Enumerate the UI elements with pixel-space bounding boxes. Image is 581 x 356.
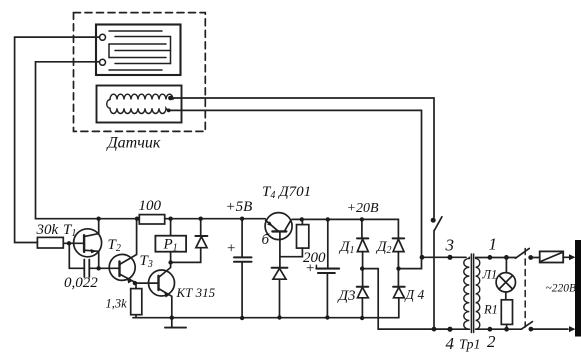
- svg-text:2: 2: [487, 332, 496, 351]
- svg-text:1,3k: 1,3k: [106, 297, 128, 311]
- svg-text:Д1: Д1: [338, 239, 355, 256]
- svg-text:100: 100: [139, 198, 162, 214]
- svg-text:~220В: ~220В: [546, 283, 577, 295]
- svg-text:Д 4: Д 4: [404, 287, 425, 302]
- svg-text:Т4 Д701: Т4 Д701: [262, 184, 311, 201]
- svg-text:Д2: Д2: [375, 239, 392, 256]
- svg-text:30k: 30k: [36, 222, 59, 238]
- svg-text:КТ 315: КТ 315: [176, 285, 216, 300]
- svg-text:Тр1: Тр1: [459, 338, 480, 353]
- svg-text:+5В: +5В: [226, 199, 253, 215]
- svg-text:+: +: [226, 241, 236, 257]
- svg-text:Р1: Р1: [163, 237, 178, 254]
- svg-text:3: 3: [445, 236, 455, 255]
- svg-text:R1: R1: [483, 303, 498, 317]
- svg-text:1: 1: [489, 235, 498, 254]
- svg-text:б: б: [262, 232, 270, 248]
- svg-text:Т1: Т1: [63, 222, 76, 239]
- svg-text:Д3: Д3: [337, 288, 356, 304]
- svg-text:Т2: Т2: [108, 237, 121, 254]
- svg-text:0,022: 0,022: [64, 275, 98, 291]
- svg-text:Датчик: Датчик: [106, 135, 161, 152]
- svg-text:+20В: +20В: [347, 201, 379, 216]
- svg-text:Т3: Т3: [140, 253, 153, 270]
- svg-text:4: 4: [446, 334, 455, 353]
- svg-text:Л1: Л1: [482, 268, 498, 282]
- svg-text:+: +: [305, 261, 315, 277]
